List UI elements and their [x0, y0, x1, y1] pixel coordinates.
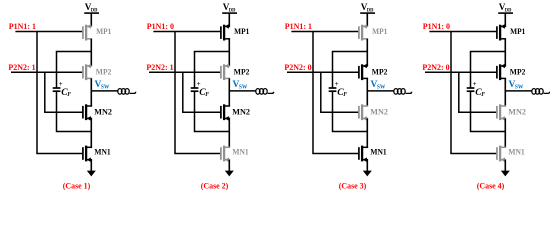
- wire P2N2 to MP2 gate: [149, 71, 221, 73]
- transistor MN2: [497, 104, 506, 120]
- svg-text:P2N2: 0: P2N2: 0: [422, 62, 449, 72]
- transistor MN2: [221, 104, 230, 120]
- svg-text:(Case 4): (Case 4): [477, 181, 505, 191]
- svg-text:MN2: MN2: [94, 107, 112, 116]
- transistor MP1: [497, 24, 506, 40]
- wire MN1 gate: [312, 153, 359, 155]
- wire MN2 gate: [44, 111, 83, 113]
- svg-text:MN1: MN1: [508, 148, 524, 157]
- transistor MP1: [83, 24, 92, 40]
- wire MP1 drain to MP2 source (node X): [228, 39, 230, 66]
- wire P2N2 vertical to MN2 gate: [44, 72, 46, 112]
- wire P1N1 to MP1 gate: [291, 31, 359, 33]
- transistor MN2: [359, 104, 368, 120]
- svg-text:F: F: [205, 92, 209, 98]
- wire node X to capacitor CF top: [333, 52, 368, 88]
- power VDD symbol: [360, 2, 375, 14]
- wire VSW to inductor: [505, 90, 532, 92]
- wire MN2 gate: [320, 111, 359, 113]
- value label CF: [337, 87, 347, 98]
- transistor MN1: [497, 146, 506, 162]
- ground symbol: [363, 171, 372, 177]
- transistor MP1: [221, 24, 230, 40]
- wire VDD to MP1 source: [504, 13, 506, 26]
- power VDD symbol: [498, 2, 513, 14]
- transistor MN1: [359, 146, 368, 162]
- wire MP2 drain to MN2 drain (node VSW): [366, 78, 368, 106]
- wire VSW to inductor: [229, 90, 256, 92]
- ground symbol: [501, 171, 510, 177]
- inductor L (output filter coil): [532, 89, 550, 95]
- wire MN1 gate: [36, 153, 83, 155]
- transistor MN1: [83, 146, 92, 162]
- value label CF: [199, 87, 209, 98]
- svg-text:MN2: MN2: [370, 107, 388, 116]
- svg-text:P1N1: 1: P1N1: 1: [9, 21, 36, 31]
- node VSW output label: [371, 80, 386, 91]
- wire capacitor CF bottom to node Y: [333, 91, 368, 131]
- power VDD symbol: [222, 2, 237, 14]
- wire MN2 source to MN1 drain (node Y): [90, 118, 92, 147]
- wire MP2 drain to MN2 drain (node VSW): [504, 78, 506, 106]
- wire VDD to MP1 source: [90, 13, 92, 26]
- svg-text:MP2: MP2: [234, 68, 250, 77]
- svg-text:P1N1: 0: P1N1: 0: [423, 21, 450, 31]
- node VSW output label: [95, 80, 110, 91]
- wire MN1 source to ground: [90, 160, 92, 171]
- wire P1N1 vertical to MN1 gate: [450, 32, 452, 154]
- svg-text:SW: SW: [515, 84, 524, 90]
- svg-text:MN2: MN2: [508, 107, 526, 116]
- wire P1N1 to MP1 gate: [153, 31, 221, 33]
- wire node X to capacitor CF top: [195, 52, 230, 88]
- wire node X to capacitor CF top: [471, 52, 506, 88]
- wire VSW to inductor: [367, 90, 394, 92]
- wire MP1 drain to MP2 source (node X): [90, 39, 92, 66]
- svg-text:(Case 3): (Case 3): [339, 181, 367, 191]
- wire VSW to inductor: [91, 90, 118, 92]
- transistor MP2: [83, 64, 92, 80]
- wire P2N2 vertical to MN2 gate: [320, 72, 322, 112]
- svg-text:P2N2: 0: P2N2: 0: [284, 62, 311, 72]
- wire P1N1 vertical to MN1 gate: [174, 32, 176, 154]
- svg-text:MP1: MP1: [510, 27, 525, 36]
- wire P1N1 to MP1 gate: [15, 31, 83, 33]
- svg-text:F: F: [343, 92, 347, 98]
- wire MP2 drain to MN2 drain (node VSW): [228, 78, 230, 106]
- wire P2N2 vertical to MN2 gate: [458, 72, 460, 112]
- svg-text:(Case 2): (Case 2): [201, 181, 229, 191]
- wire P1N1 to MP1 gate: [429, 31, 497, 33]
- wire VDD to MP1 source: [228, 13, 230, 26]
- transistor MN2: [83, 104, 92, 120]
- wire MN2 source to MN1 drain (node Y): [228, 118, 230, 147]
- inductor L (output filter coil): [118, 89, 136, 95]
- wire MN1 gate: [174, 153, 221, 155]
- wire MN2 source to MN1 drain (node Y): [366, 118, 368, 147]
- inductor L (output filter coil): [394, 89, 412, 95]
- value label CF: [61, 87, 71, 98]
- wire MN1 source to ground: [228, 160, 230, 171]
- wire MN1 gate: [450, 153, 497, 155]
- svg-text:MP2: MP2: [372, 68, 388, 77]
- svg-text:SW: SW: [101, 84, 110, 90]
- wire VDD to MP1 source: [366, 13, 368, 26]
- wire P1N1 vertical to MN1 gate: [312, 32, 314, 154]
- svg-text:SW: SW: [239, 84, 248, 90]
- capacitor CF: [53, 88, 61, 91]
- svg-text:P2N2: 1: P2N2: 1: [8, 62, 35, 72]
- value label CF: [475, 87, 485, 98]
- svg-text:F: F: [67, 92, 71, 98]
- svg-text:MP2: MP2: [510, 68, 526, 77]
- svg-text:F: F: [481, 92, 485, 98]
- wire MN1 source to ground: [366, 160, 368, 171]
- transistor MN1: [221, 146, 230, 162]
- wire capacitor CF bottom to node Y: [195, 91, 230, 131]
- svg-text:P1N1: 1: P1N1: 1: [285, 21, 312, 31]
- wire MN2 gate: [458, 111, 497, 113]
- wire MP1 drain to MP2 source (node X): [504, 39, 506, 66]
- wire capacitor CF bottom to node Y: [57, 91, 92, 131]
- svg-text:MN1: MN1: [232, 148, 248, 157]
- power VDD symbol: [84, 2, 99, 14]
- node VSW output label: [233, 80, 248, 91]
- wire MP2 drain to MN2 drain (node VSW): [90, 78, 92, 106]
- svg-text:MP2: MP2: [96, 68, 112, 77]
- wire capacitor CF bottom to node Y: [471, 91, 506, 131]
- svg-text:MP1: MP1: [96, 27, 111, 36]
- svg-text:MN1: MN1: [370, 148, 386, 157]
- svg-text:MN1: MN1: [94, 148, 110, 157]
- svg-text:SW: SW: [377, 84, 386, 90]
- wire MN1 source to ground: [504, 160, 506, 171]
- transistor MP1: [359, 24, 368, 40]
- svg-text:P2N2: 1: P2N2: 1: [146, 62, 173, 72]
- wire MP1 drain to MP2 source (node X): [366, 39, 368, 66]
- ground symbol: [225, 171, 234, 177]
- svg-text:P1N1: 0: P1N1: 0: [147, 21, 174, 31]
- transistor MP2: [497, 64, 506, 80]
- transistor MP2: [359, 64, 368, 80]
- capacitor CF: [329, 88, 337, 91]
- capacitor CF: [467, 88, 475, 91]
- inductor L (output filter coil): [256, 89, 274, 95]
- wire P2N2 to MP2 gate: [287, 71, 359, 73]
- ground symbol: [87, 171, 96, 177]
- svg-text:MP1: MP1: [372, 27, 387, 36]
- svg-text:MN2: MN2: [232, 107, 250, 116]
- transistor MP2: [221, 64, 230, 80]
- svg-text:(Case 1): (Case 1): [63, 181, 91, 191]
- wire P2N2 to MP2 gate: [425, 71, 497, 73]
- node VSW output label: [509, 80, 524, 91]
- wire P2N2 vertical to MN2 gate: [182, 72, 184, 112]
- svg-text:MP1: MP1: [234, 27, 249, 36]
- wire MN2 gate: [182, 111, 221, 113]
- wire node X to capacitor CF top: [57, 52, 92, 88]
- wire P1N1 vertical to MN1 gate: [36, 32, 38, 154]
- wire P2N2 to MP2 gate: [11, 71, 83, 73]
- wire MN2 source to MN1 drain (node Y): [504, 118, 506, 147]
- capacitor CF: [191, 88, 199, 91]
